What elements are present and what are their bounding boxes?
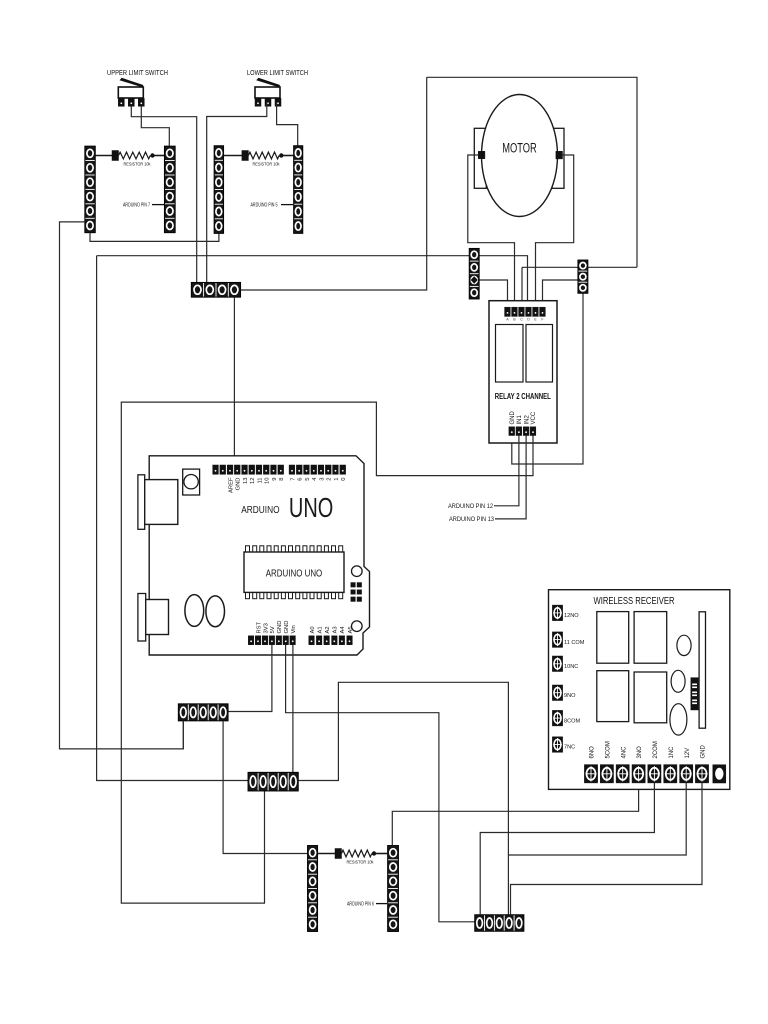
receiver bottom terminals 6NO..GND	[584, 765, 708, 783]
resistor R1 10k	[95, 151, 164, 161]
node ARDUINO PIN 7	[123, 203, 164, 209]
pin header J8	[178, 704, 228, 721]
svg-text:IN1: IN1	[517, 415, 523, 425]
svg-text:11: 11	[257, 478, 263, 484]
svg-text:ARDUINO PIN 12: ARDUINO PIN 12	[448, 503, 493, 510]
svg-text:Vin: Vin	[291, 625, 297, 633]
wire	[292, 645, 294, 773]
pin header J7	[578, 260, 588, 293]
resistor R3 10k	[318, 849, 388, 859]
svg-text:A0: A0	[310, 626, 316, 633]
svg-text:MOTOR: MOTOR	[502, 141, 537, 156]
receiver end terminal	[713, 765, 726, 783]
svg-text:AREF: AREF	[228, 477, 234, 493]
wire	[468, 155, 515, 308]
wire	[277, 102, 298, 146]
wire	[228, 645, 272, 712]
receiver capacitor C5	[670, 704, 687, 735]
svg-text:IN2: IN2	[524, 415, 530, 425]
svg-text:9: 9	[272, 478, 278, 481]
arduino power jack	[138, 594, 169, 642]
pin header J3	[214, 146, 224, 234]
wire	[233, 297, 235, 466]
svg-text:WIRELESS RECEIVER: WIRELESS RECEIVER	[594, 596, 675, 607]
svg-text:GND: GND	[510, 411, 516, 425]
svg-text:7: 7	[290, 478, 296, 481]
svg-text:5COM: 5COM	[606, 741, 612, 758]
relay pin letters	[506, 318, 544, 322]
pin header J10	[308, 846, 318, 932]
svg-text:LOWER LIMIT SWITCH: LOWER LIMIT SWITCH	[247, 70, 308, 77]
arduino capacitor C1	[185, 595, 204, 627]
arduino mounting hole bottom	[352, 621, 363, 632]
svg-text:ARDUINO PIN 5: ARDUINO PIN 5	[251, 203, 278, 209]
wire	[543, 280, 578, 308]
relay control terminals GND IN1 IN2 VCC	[509, 427, 536, 436]
svg-text:5: 5	[305, 478, 311, 481]
relay control pin labels GND IN1 IN2 VCC	[510, 411, 537, 425]
pin header J2	[164, 146, 175, 233]
svg-text:12: 12	[250, 478, 256, 484]
arduino digital header 7..0	[289, 465, 346, 474]
wire	[286, 645, 475, 922]
arduino analog header	[309, 636, 353, 645]
relay input terminals A-F	[505, 307, 546, 316]
node ARDUINO PIN 6	[347, 902, 387, 908]
svg-text:ARDUINO PIN 6: ARDUINO PIN 6	[347, 902, 374, 908]
svg-text:10NC: 10NC	[564, 664, 578, 670]
svg-text:VCC: VCC	[531, 411, 537, 424]
svg-text:1: 1	[334, 478, 340, 481]
svg-text:GND: GND	[236, 478, 242, 491]
arduino mounting hole top	[352, 566, 363, 577]
arduino power pin labels RST 3V3 5V GND GND Vin	[256, 621, 297, 634]
svg-text:UPPER LIMIT SWITCH: UPPER LIMIT SWITCH	[107, 70, 168, 77]
limit switch SW1	[118, 78, 144, 107]
arduino MCU chip	[244, 546, 344, 599]
arduino digital header AREF..8	[213, 465, 284, 474]
svg-text:GND: GND	[701, 745, 707, 759]
wire	[536, 155, 574, 308]
arduino digital pin labels AREF GND 13..8	[228, 477, 285, 493]
receiver relay K3	[597, 612, 629, 664]
wire	[131, 106, 196, 282]
pin header J6	[469, 248, 479, 299]
limit switch SW2	[255, 78, 281, 107]
wire	[60, 222, 184, 749]
svg-text:D: D	[527, 318, 530, 322]
wireless receiver RX1 box	[549, 590, 730, 790]
wire	[97, 256, 248, 781]
wire	[298, 682, 508, 914]
svg-text:UNO: UNO	[289, 492, 333, 523]
wire	[508, 783, 686, 855]
receiver left terminal labels	[564, 613, 585, 751]
wire	[90, 233, 219, 242]
svg-text:RST: RST	[256, 621, 262, 633]
svg-text:RESISTOR 10k: RESISTOR 10k	[253, 162, 280, 168]
svg-text:12NO: 12NO	[564, 613, 579, 619]
svg-text:5V: 5V	[270, 626, 276, 633]
svg-text:A5: A5	[348, 626, 354, 633]
svg-text:2COM: 2COM	[653, 741, 659, 758]
arduino USB connector	[138, 475, 178, 530]
receiver relay K5	[597, 671, 629, 722]
receiver capacitor C4	[671, 670, 685, 692]
arduino power header	[248, 636, 295, 645]
svg-text:8: 8	[279, 478, 285, 481]
svg-text:12V: 12V	[685, 748, 691, 759]
wire	[521, 267, 523, 307]
wire	[241, 77, 427, 290]
svg-text:1NC: 1NC	[669, 746, 675, 759]
wire VCC net	[121, 402, 533, 903]
pin header J9	[248, 772, 298, 791]
node ARDUINO PIN 5	[251, 203, 294, 209]
svg-text:3NO: 3NO	[637, 746, 643, 759]
resistor R2 10k	[224, 151, 294, 161]
receiver bottom terminal labels	[590, 741, 707, 758]
svg-text:ARDUINO UNO: ARDUINO UNO	[266, 569, 323, 580]
receiver relay K4	[634, 612, 667, 664]
svg-text:6: 6	[298, 478, 304, 481]
svg-text:ARDUINO: ARDUINO	[241, 504, 279, 516]
wire	[141, 106, 169, 146]
svg-text:11 COM: 11 COM	[564, 640, 585, 646]
receiver crystal Y1	[691, 678, 699, 710]
svg-text:3V3: 3V3	[263, 623, 269, 633]
svg-text:6NO: 6NO	[590, 746, 596, 759]
svg-text:ARDUINO PIN 7: ARDUINO PIN 7	[123, 203, 150, 209]
arduino ICSP header	[351, 583, 362, 602]
relay K1	[496, 325, 524, 383]
svg-text:RELAY 2 CHANNEL: RELAY 2 CHANNEL	[495, 392, 551, 401]
wire	[480, 783, 654, 915]
svg-text:10: 10	[265, 478, 271, 484]
wire	[223, 721, 307, 854]
arduino capacitor C2	[206, 596, 225, 627]
relay K2	[526, 325, 553, 383]
svg-text:A4: A4	[340, 626, 346, 634]
arduino reset button	[183, 469, 200, 495]
wire	[182, 721, 184, 749]
svg-text:C: C	[520, 318, 523, 322]
pin header J12	[475, 915, 524, 932]
wire	[97, 256, 528, 308]
arduino digital pin labels 7..0	[290, 477, 347, 481]
junction node	[471, 276, 478, 284]
wire	[392, 783, 638, 846]
svg-text:RESISTOR 10k: RESISTOR 10k	[347, 860, 374, 866]
arduino UNO board U1 outline	[149, 456, 369, 655]
pin header J11	[388, 846, 399, 932]
svg-text:13: 13	[243, 478, 249, 484]
svg-text:3: 3	[319, 478, 325, 481]
wire	[494, 436, 519, 506]
receiver antenna	[699, 612, 705, 728]
pin header J5	[191, 282, 240, 297]
receiver relay K6	[634, 672, 667, 723]
svg-text:ARDUINO PIN 13: ARDUINO PIN 13	[449, 516, 494, 523]
pin header J1	[85, 146, 96, 233]
pin header J4	[294, 146, 303, 234]
wire	[511, 783, 703, 915]
svg-text:0: 0	[341, 478, 347, 481]
arduino analog pin labels A0..A5	[310, 626, 354, 634]
svg-text:A3: A3	[333, 626, 339, 633]
wire	[495, 436, 526, 519]
svg-text:RESISTOR 10k: RESISTOR 10k	[124, 162, 151, 168]
svg-text:7NC: 7NC	[564, 745, 575, 751]
svg-text:2: 2	[327, 478, 333, 481]
wire	[522, 266, 637, 268]
relay module RLY1 box	[489, 301, 557, 443]
wire	[427, 77, 637, 267]
receiver capacitor C3	[677, 635, 691, 655]
svg-text:A2: A2	[325, 626, 331, 633]
motor M1	[474, 95, 564, 217]
svg-text:GND: GND	[277, 621, 283, 634]
svg-text:A1: A1	[317, 626, 323, 633]
svg-text:9NO: 9NO	[564, 693, 576, 699]
wire	[207, 102, 267, 282]
svg-text:GND: GND	[284, 621, 290, 634]
receiver left terminals 12NO..7NC	[552, 605, 562, 752]
wire	[512, 293, 583, 464]
svg-text:4NC: 4NC	[621, 746, 627, 759]
svg-text:8COM: 8COM	[564, 718, 581, 724]
wire	[479, 280, 507, 308]
